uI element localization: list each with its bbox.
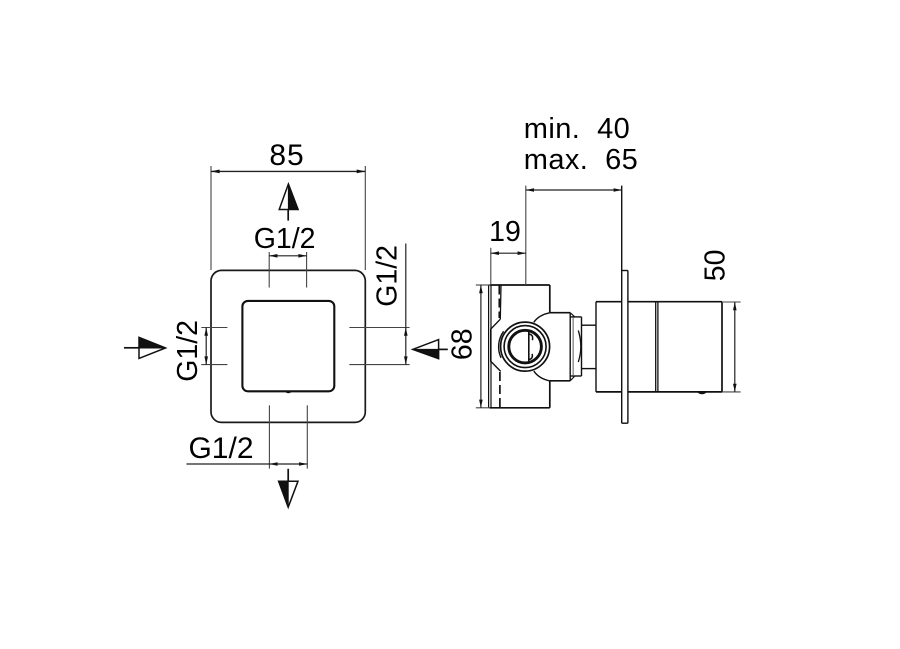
svg-text:max. 65: max. 65 [524, 144, 638, 176]
svg-text:68: 68 [447, 328, 479, 360]
svg-text:min. 40: min. 40 [524, 113, 630, 145]
svg-text:G1/2: G1/2 [188, 432, 253, 465]
svg-text:50: 50 [699, 250, 731, 282]
svg-text:G1/2: G1/2 [254, 223, 316, 255]
svg-text:G1/2: G1/2 [172, 320, 204, 382]
svg-text:G1/2: G1/2 [372, 245, 404, 307]
svg-text:85: 85 [269, 139, 304, 172]
svg-text:19: 19 [489, 216, 521, 248]
